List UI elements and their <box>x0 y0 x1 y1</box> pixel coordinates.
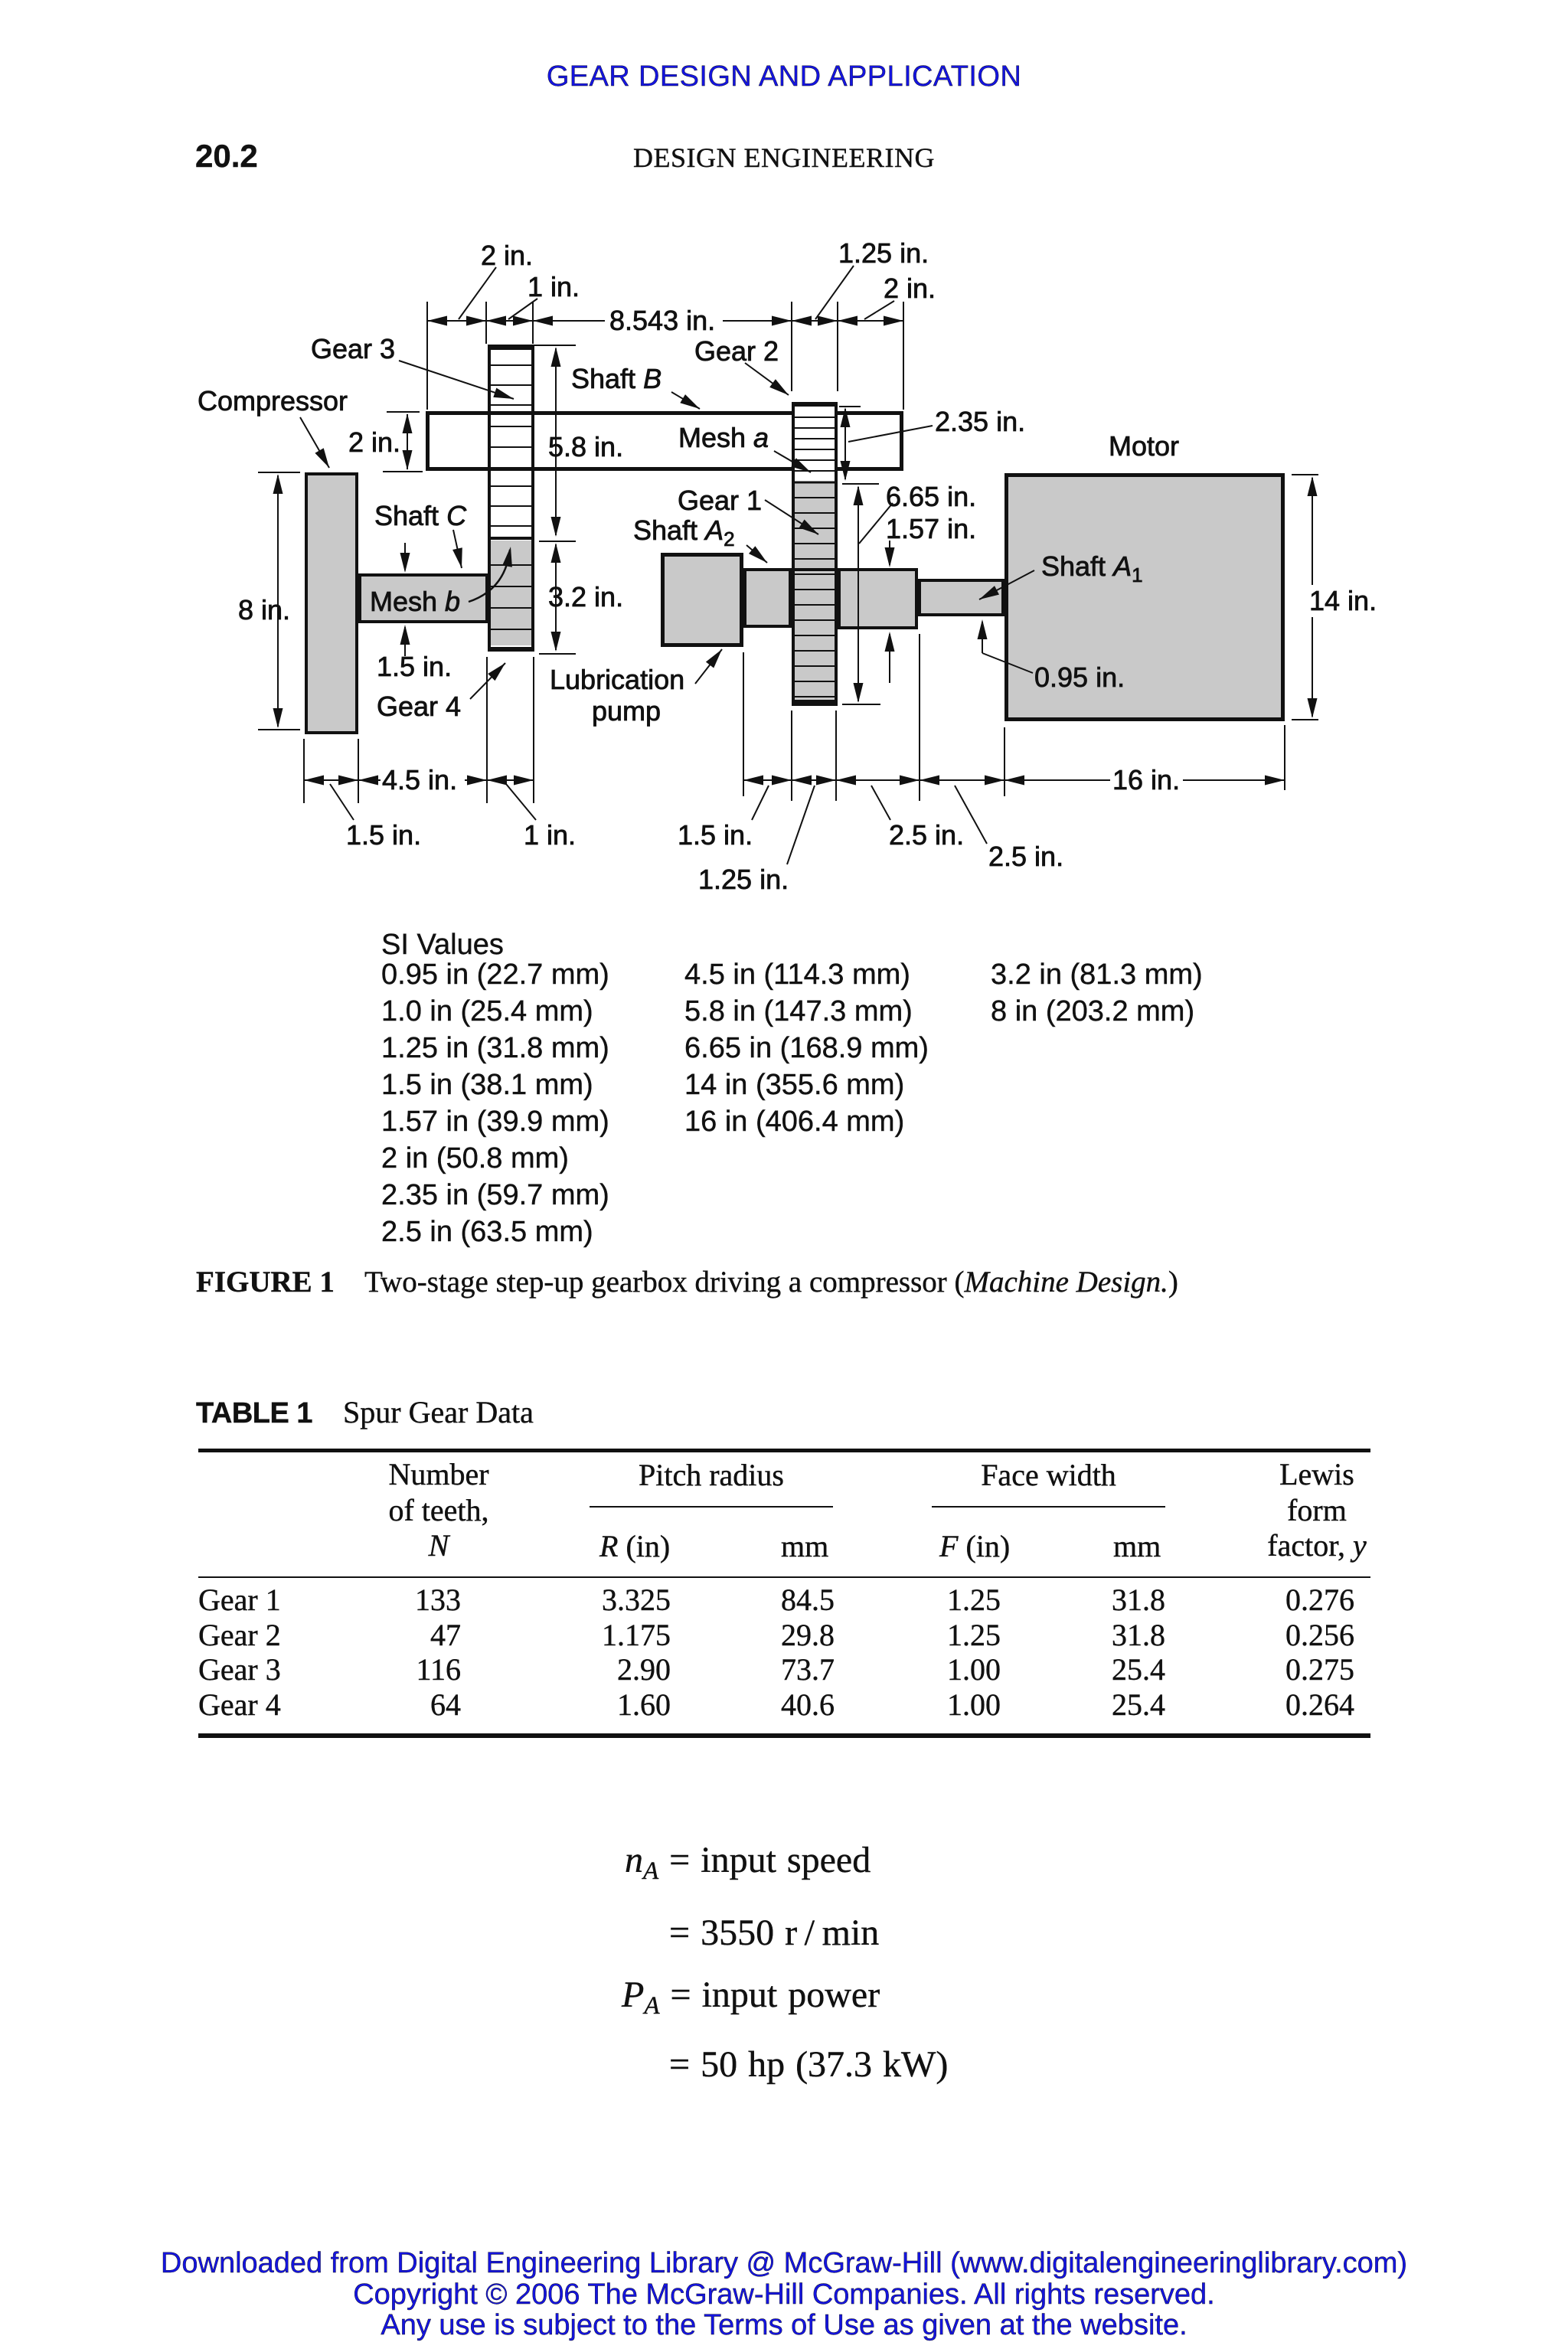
svg-text:1.25 in.: 1.25 in. <box>838 237 929 269</box>
svg-text:16 in.: 16 in. <box>1112 764 1180 795</box>
svg-text:Mesh a: Mesh a <box>678 422 769 453</box>
svg-text:1 in.: 1 in. <box>528 271 580 302</box>
svg-text:2 in.: 2 in. <box>884 273 936 304</box>
svg-text:1.5 in.: 1.5 in. <box>377 651 452 682</box>
svg-text:1 in.: 1 in. <box>524 819 576 851</box>
svg-text:2.5 in.: 2.5 in. <box>988 841 1063 872</box>
svg-text:3.2 in.: 3.2 in. <box>548 581 623 612</box>
svg-text:2.5 in.: 2.5 in. <box>889 819 964 851</box>
svg-text:Gear 3: Gear 3 <box>311 333 395 364</box>
svg-text:Motor: Motor <box>1109 430 1179 462</box>
svg-text:Compressor: Compressor <box>198 385 348 416</box>
svg-text:Gear 1: Gear 1 <box>678 485 762 516</box>
svg-text:2 in.: 2 in. <box>348 426 400 458</box>
svg-text:1.57 in.: 1.57 in. <box>886 513 976 544</box>
svg-text:0.95 in.: 0.95 in. <box>1034 661 1125 693</box>
svg-text:4.5 in.: 4.5 in. <box>382 764 457 795</box>
svg-text:2 in.: 2 in. <box>481 240 533 271</box>
svg-text:5.8 in.: 5.8 in. <box>548 431 623 462</box>
svg-text:Gear 2: Gear 2 <box>694 335 779 367</box>
svg-text:2.35 in.: 2.35 in. <box>935 406 1025 437</box>
svg-text:Shaft A1: Shaft A1 <box>1041 550 1143 586</box>
svg-text:1.5 in.: 1.5 in. <box>678 819 753 851</box>
svg-text:6.65 in.: 6.65 in. <box>886 481 976 512</box>
svg-text:Shaft B: Shaft B <box>571 363 661 394</box>
svg-text:Lubrication: Lubrication <box>550 664 684 695</box>
svg-text:pump: pump <box>592 695 661 727</box>
svg-text:Shaft C: Shaft C <box>374 500 467 531</box>
svg-text:1.25 in.: 1.25 in. <box>698 864 789 895</box>
svg-text:8.543 in.: 8.543 in. <box>609 305 715 336</box>
svg-text:Shaft A2: Shaft A2 <box>633 514 735 550</box>
svg-text:Mesh b: Mesh b <box>370 586 460 617</box>
svg-text:1.5 in.: 1.5 in. <box>346 819 421 851</box>
svg-text:8 in.: 8 in. <box>238 594 290 626</box>
svg-text:Gear 4: Gear 4 <box>377 691 461 722</box>
svg-text:14 in.: 14 in. <box>1309 585 1377 616</box>
